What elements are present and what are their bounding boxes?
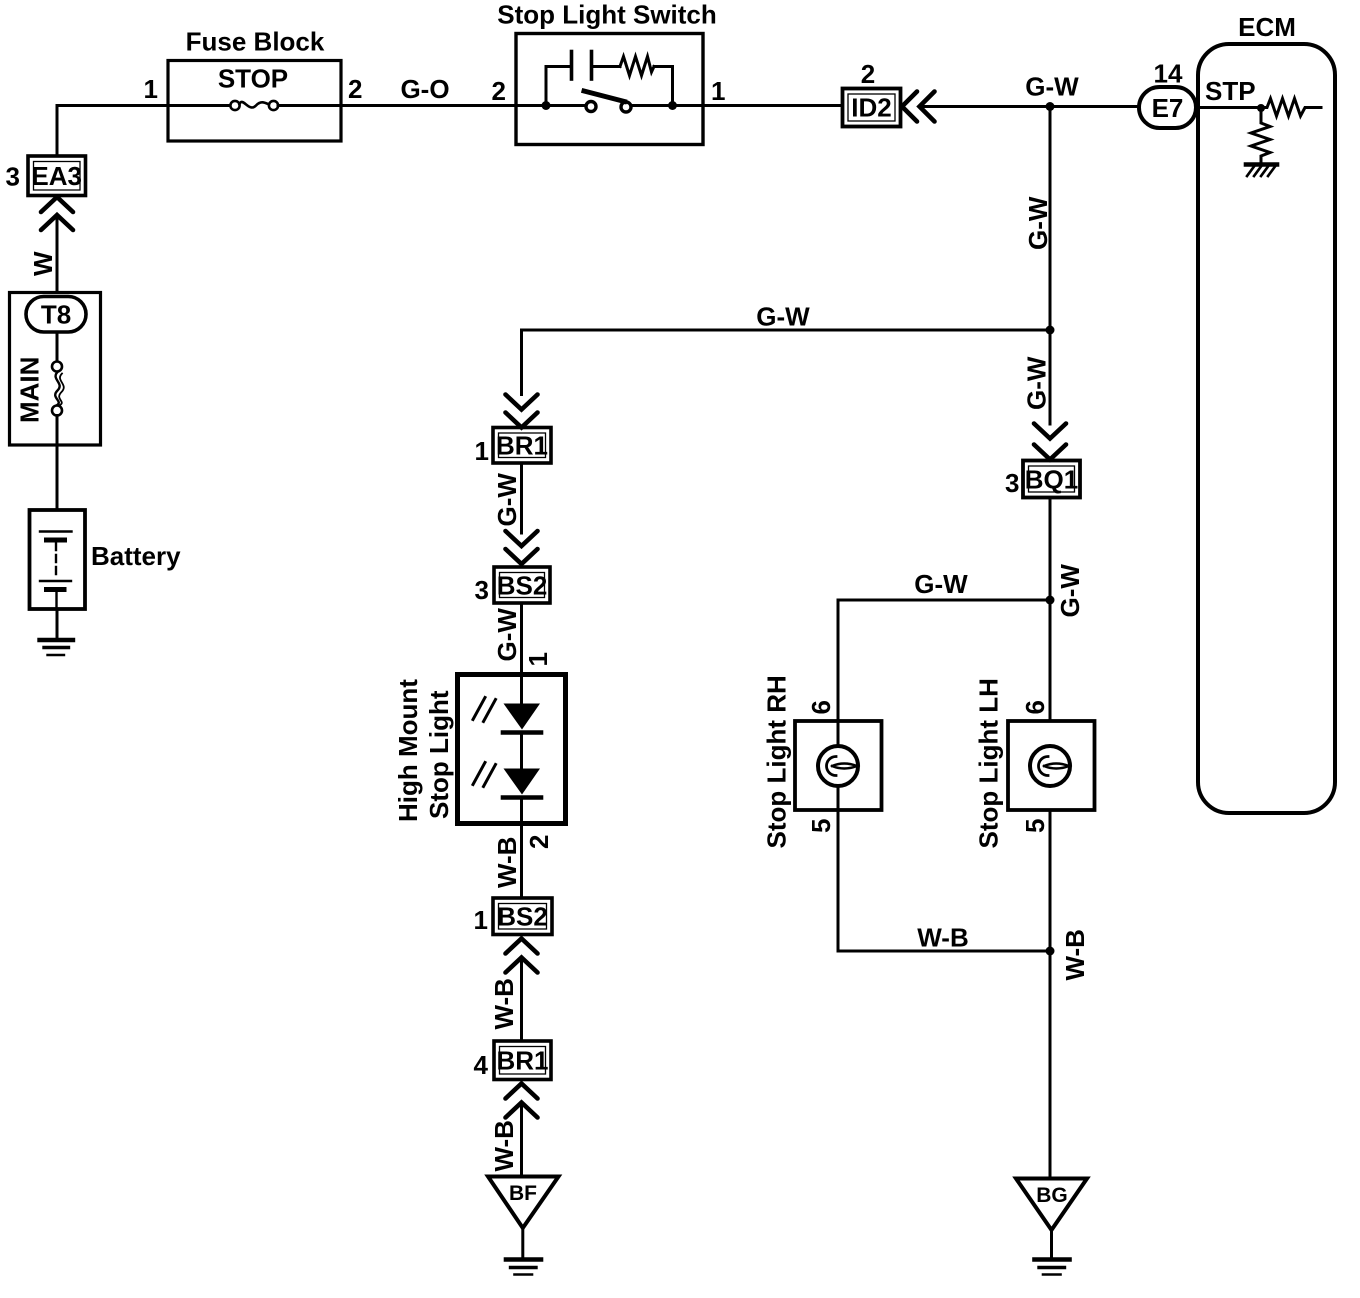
wire battery-feed top rail to fuse block pin 1 [57, 106, 168, 157]
wire label G-W (rotated) [492, 473, 522, 527]
wire from E7 into ECM [1196, 106, 1262, 109]
svg-text:G-W: G-W [492, 473, 522, 527]
ground symbol below BG [1035, 1260, 1070, 1275]
connector ID2 [843, 89, 901, 127]
svg-text:W: W [28, 251, 58, 276]
wire W from MAIN to EA3 arrows [56, 215, 59, 293]
wire BG to ground [1050, 1230, 1053, 1258]
svg-text:3: 3 [6, 162, 20, 192]
connector BR1 lower [494, 1041, 551, 1080]
resistor vertical inside ECM [1251, 108, 1270, 163]
stop light switch box [516, 34, 703, 145]
battery box [30, 510, 86, 609]
connector arrows below EA3 (pointing up) [41, 197, 73, 230]
svg-text:ECM: ECM [1238, 12, 1296, 42]
svg-text:3: 3 [1005, 468, 1019, 498]
LED 2 inside high mount stop light [473, 735, 541, 824]
wire W-B from stop light RH down and right [838, 810, 1050, 951]
battery cell plates [40, 532, 72, 610]
wire G-W vertical from mid tee down to BQ1 arrows [1049, 330, 1052, 424]
capacitor branch inside switch [546, 52, 592, 106]
node junction at W-B tee [1046, 947, 1055, 956]
wire G-W horizontal to high mount branch [522, 330, 1051, 395]
svg-text:BR1: BR1 [496, 431, 548, 461]
wire G-W from BS2 to high mount stop light [520, 603, 523, 675]
wire from switch pin 1 to connector ID2 [703, 104, 843, 107]
svg-text:ID2: ID2 [851, 93, 891, 123]
ground point triangle BF [488, 1177, 559, 1229]
wire label G-W (RH branch) [914, 569, 968, 599]
svg-text:BG: BG [1036, 1184, 1068, 1207]
connector BS2 lower [493, 898, 552, 935]
pin 5 label of stop light RH (rotated) [806, 819, 836, 833]
connector arrows above BS2 (pointing down) [506, 531, 538, 564]
ground symbol below BF [506, 1260, 541, 1275]
svg-text:W-B: W-B [492, 837, 522, 888]
svg-text:G-W: G-W [1055, 564, 1085, 618]
wire label W-B (horizontal) [917, 923, 968, 953]
node junction left inside switch [542, 101, 551, 110]
svg-text:5: 5 [806, 819, 836, 833]
connector BR1 pin 1 label [475, 436, 489, 466]
connector arrows below BS2 (pointing up) [506, 939, 538, 973]
switch contacts and lever [584, 91, 631, 112]
wire through switch box to switch contacts [516, 104, 703, 107]
svg-text:2: 2 [492, 76, 506, 106]
ground below battery [40, 640, 74, 655]
svg-text:1: 1 [144, 74, 158, 104]
svg-text:4: 4 [474, 1050, 489, 1080]
wire MAIN to battery [56, 445, 59, 510]
svg-text:G-O: G-O [400, 74, 449, 104]
wire label G-O [400, 74, 449, 104]
svg-text:1: 1 [711, 76, 725, 106]
svg-text:STP: STP [1205, 76, 1256, 106]
svg-text:14: 14 [1154, 59, 1183, 89]
pin 1 label of stop light switch [711, 76, 725, 106]
node junction right inside switch [668, 101, 677, 110]
node junction inside ECM [1257, 104, 1265, 112]
pin 5 label of stop light LH (rotated) [1020, 819, 1050, 833]
fuse element symbol inside fuse block [168, 101, 341, 110]
svg-text:G-W: G-W [1025, 72, 1079, 102]
stop light RH box [795, 721, 882, 810]
fuse block box [168, 61, 341, 142]
LED 1 inside high mount stop light [473, 675, 541, 733]
wire label W-B (rotated) [489, 978, 519, 1029]
svg-text:G-W: G-W [1022, 356, 1052, 410]
connector tag T8 oval [26, 297, 86, 333]
svg-text:EA3: EA3 [31, 161, 82, 191]
wire W-B from BR1 to ground BF [520, 1103, 523, 1177]
connector E7 oval [1139, 87, 1196, 128]
svg-text:1: 1 [523, 652, 553, 666]
ground point triangle BG [1016, 1179, 1087, 1231]
svg-text:2: 2 [348, 74, 362, 104]
fusible link MAIN block box [10, 293, 101, 446]
connector arrows right of ID2 (pointing left) [902, 92, 935, 122]
MAIN label (rotated) [15, 357, 45, 423]
connector EA3 pin 3 label [6, 162, 20, 192]
svg-text:W-B: W-B [489, 978, 519, 1029]
wire label W (rotated) [28, 251, 58, 276]
svg-text:G-W: G-W [914, 569, 968, 599]
pin 1 label of high mount stop light (rotated) [523, 652, 553, 666]
svg-text:BF: BF [509, 1182, 537, 1205]
svg-text:STOP: STOP [218, 64, 288, 94]
pin 2 label of fuse block [348, 74, 362, 104]
wire label G-W (rotated, upper right column) [1023, 196, 1053, 250]
resistor horizontal inside ECM [1262, 99, 1321, 117]
connector EA3 [28, 156, 86, 196]
ECM box [1198, 44, 1335, 813]
connector BQ1 pin 3 label [1005, 468, 1019, 498]
node junction on top G-W wire [1046, 102, 1055, 111]
svg-text:Stop Light: Stop Light [424, 690, 454, 819]
svg-text:BS2: BS2 [497, 902, 548, 932]
wire battery to ground [56, 609, 59, 638]
svg-text:2: 2 [861, 59, 875, 89]
connector BS2 [494, 567, 550, 603]
svg-text:BS2: BS2 [497, 571, 548, 601]
wire G-O from fuse block to stop light switch [341, 104, 516, 107]
stop light LH box [1008, 721, 1095, 810]
svg-text:3: 3 [475, 575, 489, 605]
wire G-W from BQ1 down to stop light LH [1049, 498, 1052, 722]
stop light LH label (rotated) [974, 678, 1004, 848]
wire label W-B (rotated) [492, 837, 522, 888]
wire label W-B (rotated) [489, 1120, 519, 1171]
pin 6 label of stop light RH (rotated) [806, 700, 836, 714]
wire W-B from high mount to BS2 pin 1 [520, 824, 523, 899]
svg-text:Stop Light LH: Stop Light LH [974, 678, 1004, 848]
wire label G-W (rotated, above BQ1) [1022, 356, 1052, 410]
svg-text:G-W: G-W [492, 608, 522, 662]
wire label G-W (rotated, below BQ1) [1055, 564, 1085, 618]
svg-text:Fuse Block: Fuse Block [186, 27, 325, 57]
bulb inside stop light LH [1030, 746, 1070, 786]
wire label G-W (mid horizontal) [756, 302, 810, 332]
svg-text:5: 5 [1020, 819, 1050, 833]
high mount stop light box [458, 675, 566, 824]
wire G-W vertical from top junction down [1049, 107, 1052, 331]
svg-text:6: 6 [1020, 700, 1050, 714]
svg-text:1: 1 [474, 905, 488, 935]
wire BF to ground [521, 1228, 524, 1258]
svg-text:G-W: G-W [1023, 196, 1053, 250]
svg-text:W-B: W-B [1060, 929, 1090, 980]
svg-text:T8: T8 [41, 300, 71, 330]
connector ID2 pin 2 label [861, 59, 875, 89]
svg-text:BQ1: BQ1 [1025, 465, 1078, 495]
STP terminal label [1205, 76, 1256, 106]
ECM label [1238, 12, 1296, 42]
connector BS2 pin 3 label [475, 575, 489, 605]
stop light switch label [497, 0, 717, 30]
connector arrows above BR1 (pointing down) [506, 395, 538, 428]
high mount stop light label (rotated, two lines) [393, 679, 454, 822]
pin 2 label of high mount stop light (rotated) [524, 835, 554, 849]
connector BS2 pin 1 label [474, 905, 488, 935]
stop light RH label (rotated) [762, 675, 792, 848]
wire W-B between BS2 and BR1 [520, 958, 523, 1042]
svg-text:G-W: G-W [756, 302, 810, 332]
connector BQ1 [1023, 461, 1080, 498]
connector BR1 [493, 428, 551, 464]
pin 1 label of fuse block [144, 74, 158, 104]
svg-text:Stop Light RH: Stop Light RH [762, 675, 792, 848]
connector BR1 pin 4 label [474, 1050, 489, 1080]
wire label G-W (rotated) [492, 608, 522, 662]
connector arrows below BR1 (pointing up) [506, 1084, 538, 1118]
svg-text:E7: E7 [1152, 93, 1184, 123]
node junction at stop light tee [1046, 596, 1055, 605]
node junction at mid G-W tee [1046, 326, 1055, 335]
svg-text:Battery: Battery [91, 541, 181, 571]
chassis ground inside ECM [1246, 165, 1277, 177]
svg-text:W-B: W-B [917, 923, 968, 953]
wire W-B from stop light LH to ground BG [1049, 810, 1052, 1178]
battery label [91, 541, 181, 571]
svg-text:BR1: BR1 [496, 1046, 548, 1076]
connector E7 pin 14 label [1154, 59, 1183, 89]
connector arrows above BQ1 (pointing down) [1034, 424, 1066, 460]
wire label G-W (top) [1025, 72, 1079, 102]
svg-text:6: 6 [806, 700, 836, 714]
resistor branch inside switch [593, 57, 673, 106]
svg-text:2: 2 [524, 835, 554, 849]
svg-text:MAIN: MAIN [15, 357, 45, 423]
wire G-W from ID2 arrows to ECM connector E7 [920, 105, 1139, 108]
wire label W-B (rotated, right of wire) [1060, 929, 1090, 980]
svg-text:Stop Light Switch: Stop Light Switch [497, 0, 717, 30]
pin 6 label of stop light LH (rotated) [1020, 700, 1050, 714]
svg-text:1: 1 [475, 436, 489, 466]
fusible link element inside MAIN [52, 332, 64, 445]
svg-text:High Mount: High Mount [393, 679, 423, 822]
fuse STOP value label [218, 64, 288, 94]
fuse block label [186, 27, 325, 57]
bulb inside stop light RH [818, 721, 858, 810]
wire G-W horizontal to stop light RH [838, 600, 1050, 721]
wire G-W between BR1 and BS2 [520, 463, 523, 533]
pin 2 label of stop light switch [492, 76, 506, 106]
svg-text:W-B: W-B [489, 1120, 519, 1171]
